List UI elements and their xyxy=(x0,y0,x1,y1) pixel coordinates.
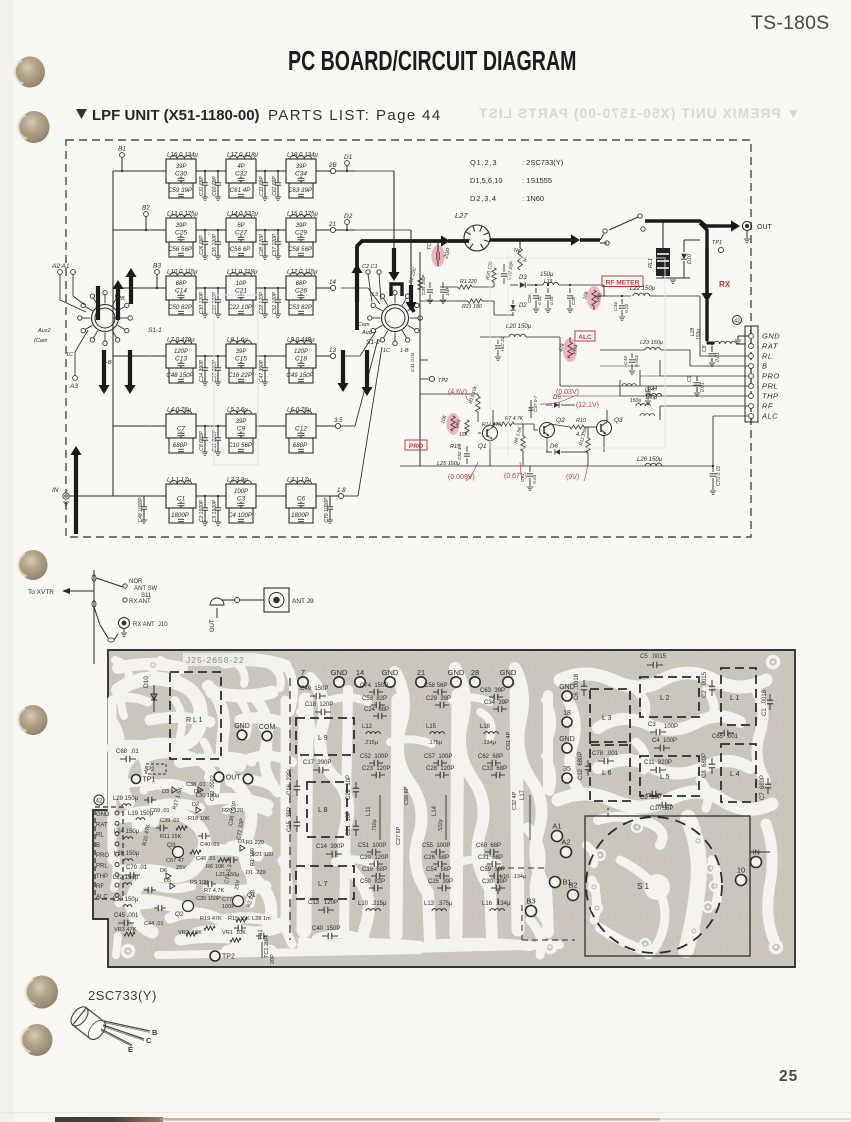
svg-text:R7 4.7K: R7 4.7K xyxy=(204,888,224,894)
svg-text:RAT: RAT xyxy=(762,342,779,351)
filter cell row3c2: inductor L11 0.718μ / C21 xyxy=(226,276,256,300)
relay RL1 xyxy=(656,248,670,276)
svg-text:C19 68P: C19 68P xyxy=(362,867,387,873)
rotary switch S1-1 xyxy=(95,308,115,328)
svg-text:C33 68P: C33 68P xyxy=(259,176,265,196)
shunt capacitor C26 68P xyxy=(204,230,206,242)
wire xyxy=(256,287,286,289)
coil L28 xyxy=(714,341,736,344)
wire to PRO pin xyxy=(660,375,748,377)
thick wire down RX xyxy=(700,223,707,248)
connector pin RL xyxy=(749,354,754,359)
label ALC xyxy=(575,331,595,341)
bold arrow down 2 near S1-1 xyxy=(128,350,132,385)
shunt capacitor C11 820P xyxy=(217,426,219,438)
svg-text:150μ: 150μ xyxy=(696,329,702,340)
connector pin PRL xyxy=(749,384,754,389)
svg-text:A1: A1 xyxy=(552,822,561,831)
PCB inductor L9 outline xyxy=(296,718,354,755)
filter cell row2c3: inductor L15 0.175μ / C29 xyxy=(286,218,316,242)
svg-text:L13 0.175μ: L13 0.175μ xyxy=(167,211,199,218)
svg-text:L 7: L 7 xyxy=(318,881,328,888)
svg-text:L4 0.76μ: L4 0.76μ xyxy=(167,407,192,414)
PCB inductor L6 outline xyxy=(590,742,630,801)
svg-text:L 8: L 8 xyxy=(318,807,328,814)
copper traces inside switch area xyxy=(686,818,699,950)
svg-text:GND: GND xyxy=(96,812,110,818)
punch hole xyxy=(19,111,50,143)
filter row 4 feed wire xyxy=(113,355,166,357)
svg-text:D3: D3 xyxy=(519,275,527,281)
svg-text:GND: GND xyxy=(762,332,780,341)
svg-text:C63 39P: C63 39P xyxy=(288,187,313,194)
svg-text:21: 21 xyxy=(417,668,425,677)
filter row 5 feed wire xyxy=(113,425,166,427)
svg-text:C31 68P: C31 68P xyxy=(199,176,205,196)
svg-text:C21: C21 xyxy=(235,288,247,295)
svg-text:C40 150P: C40 150P xyxy=(312,926,340,932)
svg-text:C25 39P: C25 39P xyxy=(428,879,453,885)
svg-text:C39 .01: C39 .01 xyxy=(160,818,180,824)
svg-text:L12: L12 xyxy=(362,724,373,730)
svg-text:L5 2.6μ: L5 2.6μ xyxy=(227,407,248,414)
svg-text:R1 180: R1 180 xyxy=(250,848,256,866)
svg-text:TP2: TP2 xyxy=(438,378,448,384)
svg-text:GND: GND xyxy=(559,684,575,691)
svg-text:C40 .01: C40 .01 xyxy=(200,842,220,848)
resistor R13 10k xyxy=(476,396,480,412)
switch contact pair b xyxy=(638,214,642,218)
PCB dashes bottom left of S1 xyxy=(498,867,545,869)
resistor R1 220 xyxy=(440,286,458,288)
wire to THP pin xyxy=(620,395,748,397)
wire to output pad xyxy=(316,170,330,172)
svg-text:Q2: Q2 xyxy=(556,417,565,424)
diode D3 xyxy=(510,284,518,286)
rotary switch S1-2 xyxy=(385,308,405,328)
switch S11 contacts xyxy=(92,575,96,581)
filter cell row2c1: inductor L13 0.175μ / C25 xyxy=(166,218,196,242)
svg-text:L 5: L 5 xyxy=(660,774,670,781)
transistor Q3 xyxy=(597,421,612,436)
connector pin THP xyxy=(749,394,754,399)
wire xyxy=(196,287,226,289)
PCB relay RL1 outline xyxy=(170,672,221,759)
shunt capacitor C57 100P xyxy=(277,230,279,242)
svg-text:C38 .01: C38 .01 xyxy=(186,782,206,788)
copper traces mid section xyxy=(310,678,369,948)
potentiometer VR1 10k red highlight xyxy=(447,413,460,435)
svg-text:C29: C29 xyxy=(295,230,307,237)
svg-text:RL: RL xyxy=(96,833,104,839)
PCB inductor L2 outline xyxy=(640,677,699,717)
svg-text:C49 150P: C49 150P xyxy=(300,686,328,692)
svg-text:0.01: 0.01 xyxy=(624,303,630,313)
output jack OUT xyxy=(742,221,751,230)
svg-text:L24: L24 xyxy=(648,386,657,392)
svg-text:25V: 25V xyxy=(176,865,186,871)
svg-text:C58 56P: C58 56P xyxy=(424,683,447,689)
bold bent wire xyxy=(96,286,100,320)
shunt capacitor C30 120P xyxy=(204,288,206,300)
filter cell row6c2: inductor L2 3.9μ / C3 xyxy=(226,484,256,508)
svg-text:R10: R10 xyxy=(576,418,587,424)
svg-text:RX ANT J10: RX ANT J10 xyxy=(133,622,168,628)
svg-text:C28 120P: C28 120P xyxy=(259,233,265,256)
svg-text:(4.6V): (4.6V) xyxy=(448,389,467,396)
svg-text:C48 1000P: C48 1000P xyxy=(138,497,144,523)
PCB transistor Q1 xyxy=(233,896,244,907)
svg-text:▼ PREMIX UNIT (X50-1570-00) PA: ▼ PREMIX UNIT (X50-1570-00) PARTS LIST xyxy=(478,106,800,121)
svg-text:C1 .0018: C1 .0018 xyxy=(762,689,768,716)
coil L22 150u xyxy=(633,293,650,296)
diode D2 xyxy=(512,300,514,304)
svg-text:10: 10 xyxy=(737,866,745,875)
svg-text:L 4: L 4 xyxy=(730,771,740,778)
wire to output pad xyxy=(316,495,338,497)
shunt capacitor C79 1000P xyxy=(329,496,331,507)
PCB diode D10 xyxy=(153,685,155,712)
svg-text:C22 10P: C22 10P xyxy=(228,304,253,311)
svg-text:L29 150μ: L29 150μ xyxy=(113,796,139,802)
svg-text:C32: C32 xyxy=(235,171,247,178)
copper traces right section xyxy=(560,673,766,687)
svg-text:C52 100P: C52 100P xyxy=(272,291,278,314)
shunt capacitor C20 100P xyxy=(217,288,219,300)
svg-text:GND: GND xyxy=(559,736,575,743)
svg-text:C23 120P: C23 120P xyxy=(362,766,390,772)
svg-text:C56 6P: C56 6P xyxy=(404,786,410,805)
PCB inductor L7 outline xyxy=(296,866,354,899)
svg-text:0.01: 0.01 xyxy=(537,296,542,305)
svg-text:R1 220: R1 220 xyxy=(460,279,477,285)
svg-text:(0V): (0V) xyxy=(566,474,579,481)
svg-text:C14 390P: C14 390P xyxy=(199,359,205,382)
filter row 1 feed wire xyxy=(113,170,166,172)
PCB top pad row xyxy=(298,677,308,687)
bold arrow up left bottom xyxy=(74,455,78,534)
terminal B1 xyxy=(120,153,125,158)
connector pin B xyxy=(749,364,754,369)
capacitor C41 0.01 xyxy=(420,359,428,361)
svg-text:C77: C77 xyxy=(222,897,232,903)
wire relay bottom xyxy=(656,277,690,279)
svg-text:C10 56P: C10 56P xyxy=(228,442,253,449)
svg-text:2B: 2B xyxy=(328,162,337,169)
svg-text:J25-2658-22: J25-2658-22 xyxy=(186,655,245,665)
svg-text:13: 13 xyxy=(329,347,336,354)
svg-text:C14 390P: C14 390P xyxy=(316,844,344,850)
diode D5 xyxy=(546,404,552,406)
svg-text:Q1,2,3: Q1,2,3 xyxy=(470,158,497,167)
filter cell row1c1: inductor L16 0.134μ / C30 xyxy=(166,159,196,183)
svg-text:C27 6P: C27 6P xyxy=(396,826,402,845)
wire to ALC pin xyxy=(713,415,748,417)
wire to output pad xyxy=(316,425,335,427)
emitter ground wire xyxy=(400,465,713,467)
svg-text:D1: D1 xyxy=(238,839,245,845)
svg-text:C48 150P: C48 150P xyxy=(166,372,194,379)
svg-text:1800P: 1800P xyxy=(171,512,190,519)
filter cell row5c2: inductor L5 2.6μ / C9 xyxy=(226,414,256,438)
svg-text:C42 .0022: C42 .0022 xyxy=(210,775,216,801)
svg-text:GND: GND xyxy=(234,723,250,730)
capacitor C48 1000P xyxy=(113,495,144,497)
svg-text:C65 .001: C65 .001 xyxy=(712,734,739,740)
svg-text:(0.009V): (0.009V) xyxy=(448,474,475,481)
svg-text:15K: 15K xyxy=(459,432,469,438)
punch hole xyxy=(26,976,58,1009)
svg-text:L12 0.115μ: L12 0.115μ xyxy=(287,269,318,276)
svg-text:L3 1.17μ: L3 1.17μ xyxy=(287,477,312,484)
svg-text:VR1 10K: VR1 10K xyxy=(222,930,246,936)
capacitor C42 22 electrolytic xyxy=(497,340,499,344)
svg-text:39P: 39P xyxy=(176,164,187,170)
wire bundle verticals xyxy=(559,337,561,386)
capacitor C43 0.001 xyxy=(631,353,633,358)
svg-text:ALC: ALC xyxy=(761,412,778,421)
terminal D2 xyxy=(345,220,350,225)
svg-text:3.5: 3.5 xyxy=(334,417,343,424)
svg-text:C60 68P: C60 68P xyxy=(476,843,501,849)
wire switch to bus xyxy=(113,317,119,319)
svg-text:100P: 100P xyxy=(234,489,248,495)
svg-text:10P: 10P xyxy=(236,281,247,287)
svg-text:Q1: Q1 xyxy=(478,443,487,450)
svg-text:B: B xyxy=(152,1028,158,1037)
svg-text:THP: THP xyxy=(96,874,108,880)
shunt capacitor C8 680P xyxy=(204,426,206,438)
connector pin PRO xyxy=(749,374,754,379)
bold staple into spokes xyxy=(391,284,402,296)
PCB mounting holes xyxy=(148,660,159,671)
svg-text:L22 150μ: L22 150μ xyxy=(630,286,656,292)
wire xyxy=(196,495,226,497)
filter cell row3c3: inductor L12 0.115μ / C26 xyxy=(286,276,316,300)
svg-text:C25: C25 xyxy=(175,230,187,237)
svg-text:RF: RF xyxy=(96,884,104,890)
capacitor C9 0.01 at connector xyxy=(696,376,698,381)
svg-text:R1 220: R1 220 xyxy=(246,840,264,846)
svg-text:A3: A3 xyxy=(69,383,78,390)
svg-text:C47 0-7: C47 0-7 xyxy=(533,395,538,412)
svg-text:L14: L14 xyxy=(432,805,438,816)
svg-text:GND: GND xyxy=(382,668,399,677)
svg-text:R18 10K: R18 10K xyxy=(188,816,210,822)
PCB board outline and copper background xyxy=(93,650,795,967)
terminal D1 xyxy=(345,161,350,166)
coil L19 150u xyxy=(538,284,543,286)
svg-text:PRO: PRO xyxy=(762,372,780,381)
node 2B xyxy=(330,168,335,173)
svg-text:RF: RF xyxy=(762,402,773,411)
svg-text:0.01: 0.01 xyxy=(715,352,721,362)
svg-text:THP: THP xyxy=(762,392,779,401)
svg-text:R19 47K: R19 47K xyxy=(200,916,222,922)
svg-text:C55 100P: C55 100P xyxy=(422,843,450,849)
svg-text:C5 1500P: C5 1500P xyxy=(212,499,218,522)
svg-text:C12: C12 xyxy=(295,426,307,433)
svg-text:NOR: NOR xyxy=(129,579,143,585)
svg-text:RL1: RL1 xyxy=(648,258,654,268)
svg-text:C56 6P: C56 6P xyxy=(230,246,252,253)
switch S1 center white pad xyxy=(644,874,670,900)
coax plug OUT xyxy=(210,598,224,605)
svg-text:C54 56P: C54 56P xyxy=(426,867,451,873)
svg-text:C45 150P: C45 150P xyxy=(421,274,426,295)
input connector IN xyxy=(63,493,69,499)
svg-text:C46 .01: C46 .01 xyxy=(196,856,216,862)
svg-text:C8: C8 xyxy=(702,345,708,352)
svg-text:ANT SW: ANT SW xyxy=(134,586,158,592)
svg-text:C53 82P: C53 82P xyxy=(288,304,313,311)
connector pin ALC xyxy=(749,414,754,419)
ground at GND pin xyxy=(738,335,749,337)
svg-text:B1: B1 xyxy=(118,146,126,153)
svg-text:PRO: PRO xyxy=(96,853,109,859)
trimmer TC1 20P red highlight xyxy=(432,245,445,267)
filter row 2 feed wire xyxy=(113,229,166,231)
svg-text:68P: 68P xyxy=(176,281,187,287)
svg-text:C39: C39 xyxy=(571,296,576,305)
svg-text:GND: GND xyxy=(448,668,465,677)
svg-text:C79 1000P: C79 1000P xyxy=(324,497,330,523)
wire to output pad xyxy=(316,287,330,289)
coil L27 xyxy=(464,225,490,251)
thick wire to RAT pin xyxy=(707,342,714,345)
wires left stubs xyxy=(659,360,661,376)
switch S11 frame xyxy=(93,570,95,648)
page title PC BOARD/CIRCUIT DIAGRAM xyxy=(288,46,576,77)
filter cell row4c3: inductor L9 0.449μ / C18 xyxy=(286,344,316,368)
svg-text:C57 100P: C57 100P xyxy=(272,233,278,256)
svg-text:C50 82P: C50 82P xyxy=(360,879,385,885)
LPF schematic dashed border xyxy=(66,140,751,537)
svg-text:GND: GND xyxy=(331,668,348,677)
svg-text:OUT: OUT xyxy=(226,775,242,782)
svg-text:C2 1500P: C2 1500P xyxy=(199,499,205,522)
svg-text:100P: 100P xyxy=(664,724,678,730)
filter cell row4c1: inductor L7 0.479μ / C13 xyxy=(166,344,196,368)
connector pin RF xyxy=(749,404,754,409)
switch contact pair a xyxy=(603,229,607,233)
svg-text:20P: 20P xyxy=(264,936,270,946)
svg-text:(0.67V): (0.67V) xyxy=(504,473,527,480)
svg-text:C9 39P: C9 39P xyxy=(640,795,662,801)
svg-text:B: B xyxy=(762,362,768,371)
svg-text:Q2: Q2 xyxy=(175,911,184,918)
svg-text:680P: 680P xyxy=(293,442,308,449)
svg-text:C10 56P: C10 56P xyxy=(650,806,673,812)
bold arrow down below S1-2 b xyxy=(365,350,369,387)
PCB inductor L5 outline xyxy=(640,756,699,796)
PCB left misc symbols xyxy=(172,787,177,793)
punch hole xyxy=(19,705,48,735)
svg-text:C13: C13 xyxy=(175,356,187,363)
terminal C1 xyxy=(377,270,381,274)
svg-text:0.01: 0.01 xyxy=(532,474,538,484)
svg-text:C11 820P: C11 820P xyxy=(644,760,672,766)
filter cell row1c2: inductor L17 0.418μ / C32 xyxy=(226,159,256,183)
svg-text:C62 68P: C62 68P xyxy=(272,176,278,196)
svg-text:A2 A1: A2 A1 xyxy=(51,263,70,270)
svg-text:4P: 4P xyxy=(237,164,244,170)
svg-text:C4 100P: C4 100P xyxy=(652,738,677,744)
svg-text:L 3: L 3 xyxy=(602,715,612,722)
svg-text:L2 3.9μ: L2 3.9μ xyxy=(227,477,248,484)
PCB transistor Q3 xyxy=(173,847,184,858)
svg-text:C2 .0015: C2 .0015 xyxy=(702,671,708,698)
capacitor C46b xyxy=(647,386,649,390)
shunt capacitor C52 100P xyxy=(277,288,279,300)
svg-text:39P: 39P xyxy=(236,419,247,425)
PCB inductor L3 outline xyxy=(590,689,630,745)
svg-text:C44 .01: C44 .01 xyxy=(144,921,164,927)
svg-text:TP1: TP1 xyxy=(143,777,156,784)
svg-text:C59 39P: C59 39P xyxy=(168,187,193,194)
bottom page edge xyxy=(55,1117,163,1122)
svg-text:L14 0.532μ: L14 0.532μ xyxy=(227,211,259,218)
svg-text:C67 47: C67 47 xyxy=(166,858,184,864)
svg-text:C44: C44 xyxy=(613,302,619,311)
svg-text:C47 390P: C47 390P xyxy=(259,359,265,382)
diode D6 xyxy=(546,451,552,453)
shunt capacitor C35 100P xyxy=(217,230,219,242)
svg-text:C16 22P: C16 22P xyxy=(228,372,253,379)
svg-text:L1 1.17μ: L1 1.17μ xyxy=(167,477,192,484)
wire xyxy=(256,229,286,231)
svg-text:L26 150μ: L26 150μ xyxy=(637,457,663,463)
transistor lead C xyxy=(103,1025,144,1039)
terminal A2 xyxy=(58,270,63,275)
svg-text:C28 120P: C28 120P xyxy=(426,766,454,772)
node 13 xyxy=(330,353,335,358)
svg-text:C26: C26 xyxy=(295,288,307,295)
svg-text:1-B: 1-B xyxy=(400,348,409,354)
terminal B2 xyxy=(144,212,149,217)
svg-text:C1: C1 xyxy=(177,496,186,503)
shunt capacitor C48 1000P xyxy=(143,496,145,507)
svg-text:D2: D2 xyxy=(344,213,353,220)
svg-text:L23 150μ: L23 150μ xyxy=(640,340,663,346)
coil L33 150u on THP line xyxy=(636,404,650,406)
svg-text:R9 10K: R9 10K xyxy=(190,880,209,886)
svg-text:C58 56P: C58 56P xyxy=(288,246,313,253)
wire mid h1 xyxy=(472,286,494,288)
svg-text:TS-180S: TS-180S xyxy=(751,12,829,34)
svg-text:18: 18 xyxy=(563,710,571,717)
svg-text:E: E xyxy=(128,1045,133,1054)
svg-text:D1: D1 xyxy=(344,154,353,161)
svg-text:C61 4P: C61 4P xyxy=(230,187,252,194)
svg-text:RL: RL xyxy=(762,352,773,361)
shunt capacitor C62 68P xyxy=(277,171,279,183)
svg-text:To XVTR: To XVTR xyxy=(28,589,54,596)
svg-text:C3: C3 xyxy=(237,496,246,503)
bold arrow down below S1-2 a xyxy=(341,350,345,383)
svg-text:TP2: TP2 xyxy=(222,954,235,961)
shunt capacitor C5 1500P xyxy=(217,496,219,508)
PCB inductor L4 outline xyxy=(721,744,756,802)
resistor R11 1.5K xyxy=(586,438,590,453)
PCB vertical dashed separator xyxy=(289,678,291,940)
svg-text:C60 68P: C60 68P xyxy=(212,176,218,196)
svg-text:L22 150μ: L22 150μ xyxy=(113,875,139,881)
thick wire to OUT xyxy=(645,221,718,226)
PCB pads GND COM OUT xyxy=(237,730,247,740)
svg-text:L18: L18 xyxy=(480,724,491,730)
svg-text:ALC: ALC xyxy=(96,894,108,900)
